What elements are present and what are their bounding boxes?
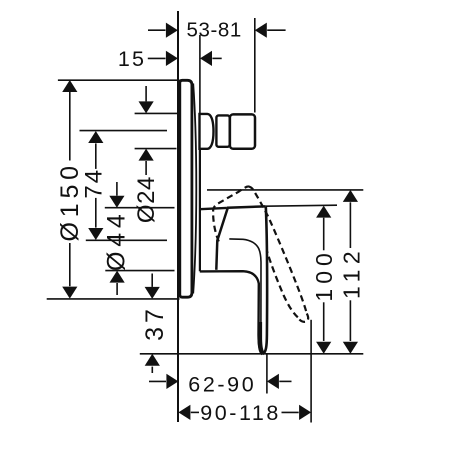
extension line plate top [58,79,180,81]
diverter neck cone [200,114,214,149]
lever hub top and left edge [216,206,265,269]
extension line spout tip level [140,353,363,355]
svg-text:74: 74 [80,168,107,199]
dashed lever position: upper edge [248,186,307,313]
wall line [177,11,179,422]
svg-text:15: 15 [118,47,146,71]
extension line solid lever top [266,205,337,206]
dashed lever position: left arc [213,186,248,241]
lever hub contour line [229,239,261,341]
dimension 112 [338,190,364,354]
lever blade outer edge [263,206,267,354]
extension line hub contour [86,239,167,241]
extension line knob axis [80,130,168,132]
sleeve top edge [200,208,227,209]
dimension D24 [133,86,160,223]
extension line knob top [135,112,178,114]
extension line plate bottom [47,298,180,300]
sleeve bottom edge and blade inner edge [200,271,263,354]
dimension D44 [103,182,131,295]
svg-text:Ø24: Ø24 [133,176,160,223]
svg-text:Ø44: Ø44 [103,209,131,271]
extension line knob bottom [135,148,177,150]
extension line sleeve top [105,207,175,209]
dimension 74 [80,131,107,240]
diverter knob ring [216,115,229,146]
extension line 53-81 right [254,18,256,113]
extension line 62-90 right [266,355,268,394]
svg-text:90-118: 90-118 [200,401,281,425]
diverter neck line / 15 extension [199,35,201,271]
svg-text:100: 100 [311,248,337,301]
dashed lever position: tip [298,314,308,322]
svg-text:53-81: 53-81 [186,18,241,41]
extension line sleeve bottom [105,270,174,272]
extension line dashed lever top [207,189,363,191]
svg-text:37: 37 [141,305,169,341]
svg-text:62-90: 62-90 [188,372,256,396]
dashed lever position: lower edge [267,251,298,318]
extension line 90-118 right [310,320,312,423]
dimension 53-81 [148,18,286,41]
dimension 15 [118,47,222,71]
lever blade tip solid [260,322,263,353]
diverter knob body [230,114,255,148]
dimension 100 [311,206,337,354]
svg-text:112: 112 [338,246,364,299]
escutcheon plate (side view) [180,80,192,297]
plate rim curve [193,84,196,294]
dimension 62-90 [149,372,292,396]
dimension D150 [56,80,84,299]
dimension 90-118 [178,401,311,425]
dimension 37 [141,274,169,374]
